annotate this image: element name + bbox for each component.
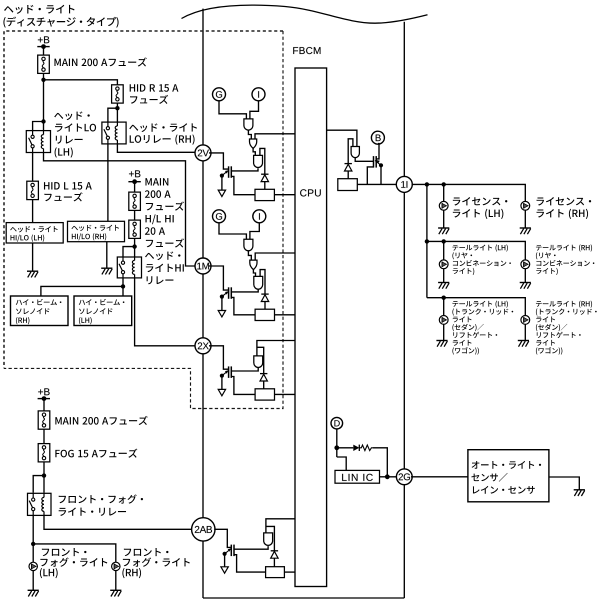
wire CPU to gate (1I) <box>327 130 357 146</box>
wire clamp branch (2V) <box>260 148 265 174</box>
wire resistor to CPU (2V) <box>274 194 295 196</box>
label license light RH <box>537 197 592 219</box>
label MAIN 200 A fuse <box>54 57 146 66</box>
wire MOSFET source to resistor (1M) <box>231 297 255 314</box>
wire B to MOSFET drain <box>376 144 379 159</box>
wire junction to RH relay switch <box>108 108 118 122</box>
wire clamp branch (2AB) <box>266 526 275 550</box>
label LIN IC <box>342 474 373 481</box>
wire MAIN fuse down to LO relay LH <box>43 73 45 130</box>
ground fog RH <box>110 590 121 596</box>
transistor MOSFET (2AB) <box>231 545 234 557</box>
wire junction to diode <box>337 447 354 449</box>
terminal G (1M cell) <box>213 210 226 223</box>
wire OR out to AND2 (2V) <box>253 148 255 155</box>
wire junction to RH fog lamp <box>33 544 116 562</box>
connector 1I <box>396 176 412 192</box>
wire 2V to MOSFET drain <box>209 153 229 169</box>
label front fog light LH <box>40 548 107 578</box>
wire HID R fuse to RH relay coil <box>116 103 118 122</box>
wire clamp branch (2X) <box>257 347 264 373</box>
node junction fog lamps <box>31 542 35 546</box>
ground tail RH row3 <box>518 341 529 347</box>
gate AND2 (2V) <box>254 155 263 167</box>
node junction row3 LH <box>442 296 446 300</box>
terminal I (2V cell) <box>252 88 265 101</box>
wire tail LH row2 to ground <box>443 269 445 283</box>
label FBCM <box>293 47 320 54</box>
label tail light RH row3 <box>536 301 597 355</box>
wire 2AB to MOSFET drain <box>214 529 231 547</box>
ground tail LH row3 <box>436 341 447 347</box>
terminal D (LIN cell) <box>331 417 343 429</box>
terminal G (2V cell) <box>213 88 226 101</box>
diode clamp (2V) <box>261 174 268 181</box>
node junction HID R output <box>115 106 119 110</box>
relay headlight LO (LH) <box>26 131 50 153</box>
label FOG 15 A fuse <box>55 449 137 458</box>
wire OR out to AND2 (1M) <box>253 270 255 277</box>
wire HID L fuse to HI/LO LH box <box>32 200 34 223</box>
wire junction to HID R fuse <box>44 80 118 85</box>
gate AND1 (1M) <box>244 239 253 251</box>
wire resistor to CPU (2AB) <box>284 571 295 573</box>
relay headlight LO (RH) <box>102 122 126 144</box>
node junction fog relay <box>42 473 46 477</box>
wire fog LH to ground <box>32 571 34 591</box>
node headlight harness curve (FBCM top edge) <box>182 5 428 23</box>
wire clamp branch (1I) <box>348 139 353 164</box>
node junction HI relay switch <box>121 284 125 288</box>
wire 1M to MOSFET drain <box>209 266 229 290</box>
connector 2V <box>195 145 211 161</box>
wire +B to MAIN fuse <box>43 47 45 56</box>
wire RH relay switch to HI/LO RH box <box>107 144 109 221</box>
node MOSFET body dot (1I) <box>375 160 383 167</box>
diode series (LIN) <box>353 445 359 451</box>
wire I to AND gate (1M) <box>250 223 259 239</box>
gate OR (1M) <box>250 260 257 270</box>
gate OR (2V) <box>250 139 257 148</box>
label headlight HI/LO RH <box>71 225 118 241</box>
gate AND1 (2V) <box>244 119 253 130</box>
wire row2 feeder <box>427 241 525 260</box>
lamp license light RH <box>521 201 530 210</box>
wire CPU to OR gate (2V) <box>255 134 295 139</box>
diode clamp (1M) <box>261 294 268 301</box>
connector 2G <box>396 469 412 485</box>
wire CPU to gate (2X) <box>257 341 295 356</box>
wire tail RH row2 to ground <box>524 269 526 283</box>
wire body down to 1I line <box>380 165 382 184</box>
module auto light / rain sensor <box>468 450 549 502</box>
wire body to arrow (1M) <box>221 297 223 311</box>
lamp license light LH <box>439 201 448 210</box>
node +B terminal (fog) <box>38 388 50 401</box>
wire gate out to MOSFET (2X) <box>231 367 258 371</box>
fuse MAIN 200 A (headlight) <box>38 55 50 73</box>
wire body to arrow (2X) <box>221 376 223 390</box>
label front fog light RH <box>122 548 189 578</box>
label headlight HI/LO LH <box>10 226 57 242</box>
wire body to arrow (2AB) <box>224 554 226 567</box>
wire LIN IC to 2G <box>380 476 398 478</box>
wire junction to fog relay switch <box>33 476 44 493</box>
lamp tail light RH (rear combination) <box>521 260 530 269</box>
wire resistor to CPU (2X) <box>275 393 296 395</box>
wire gate out to MOSFET (1I) <box>355 158 373 162</box>
node MOSFET body dot (1M) <box>220 291 229 299</box>
terminal B (1I cell) <box>371 131 384 144</box>
node dashed boundary (discharge-type headlight section) <box>4 31 283 409</box>
wire body to arrow (2V) <box>221 176 223 191</box>
wire resistor to 2G line <box>373 448 387 477</box>
fuse MAIN 200 A (fog) <box>38 411 50 429</box>
label MAIN 200 A fuse (fog) <box>55 416 147 425</box>
lamp front fog light LH <box>29 562 37 570</box>
wire FOG fuse to relay <box>43 462 45 493</box>
node output arrow (2AB) <box>221 567 228 573</box>
wire D branch to LIN IC <box>337 457 346 470</box>
resistor sense (1I) <box>338 179 358 191</box>
wire D down to junction <box>336 429 338 457</box>
ground sensor <box>574 490 585 496</box>
label high-beam solenoid LH <box>79 299 125 324</box>
wire sensor to ground <box>549 477 579 490</box>
wire MAIN to H/L HI fuse <box>134 210 136 220</box>
wire MOSFET source to resistor (2AB) <box>234 555 266 572</box>
gate AND2 (1M) <box>254 276 263 289</box>
ground headlight HI/LO LH <box>27 271 38 277</box>
wire G to AND gate (2V) <box>219 101 246 119</box>
wire diode to resistor (1I) <box>347 171 349 179</box>
wire MOSFET source to resistor (2X) <box>231 377 255 395</box>
wire 2G to sensor box <box>411 476 468 478</box>
label high-beam solenoid RH <box>16 299 62 324</box>
module CPU box <box>295 68 327 587</box>
wire MOSFET source down (1I) <box>367 167 373 185</box>
label fuse column <box>145 178 184 284</box>
wire AND2 out to MOSFET gate (2V) <box>231 168 258 171</box>
diode clamp (2AB) <box>271 551 278 558</box>
module headlight HI/LO (RH) <box>68 221 125 241</box>
wire diode to resistor (1M) <box>264 302 266 310</box>
wire HI relay coil to 2X <box>135 278 195 346</box>
wire fog RH to ground <box>115 571 117 591</box>
wire tail feeder down <box>426 184 428 297</box>
wire RH relay coil to 2V <box>117 144 194 152</box>
lamp tail light LH (trunk lid) <box>439 316 448 325</box>
label headlight LO relay LH <box>54 111 96 157</box>
terminal I (1M cell) <box>253 210 266 223</box>
ground fog LH <box>28 590 39 596</box>
label headlight LO relay RH <box>129 123 197 144</box>
node junction H/L HI output <box>132 244 136 248</box>
node junction row2 LH <box>442 239 446 243</box>
wire clamp branch (1M) <box>260 270 265 295</box>
node junction row2 left <box>425 239 429 243</box>
wire LH relay coil to 1M <box>44 153 195 267</box>
wire FBCM left trunk <box>202 9 204 598</box>
resistor series (LIN) <box>359 445 373 451</box>
wire HI/LO LH to ground <box>32 243 34 271</box>
label CPU <box>300 189 321 196</box>
wire diode to resistor (2X) <box>263 381 265 389</box>
node output arrow (2V) <box>218 190 225 196</box>
connector 2X <box>195 338 211 354</box>
wire CPU to gate (2AB) <box>266 519 295 533</box>
wire 2X to MOSFET drain <box>209 346 229 369</box>
wire gate out to MOSFET (2AB) <box>234 546 268 549</box>
wire junction to HI relay switch <box>123 247 135 257</box>
node MOSFET body dot (2X) <box>220 370 229 378</box>
wire tail RH row3 to ground <box>524 324 526 340</box>
wire G to AND gate (1M) <box>219 223 246 239</box>
gate AND (2X) <box>254 356 263 368</box>
label tail light RH row2 <box>536 244 594 275</box>
ground headlight HI/LO RH <box>101 268 112 274</box>
node +B terminal (H/L HI) <box>128 170 140 184</box>
ground tail LH row2 <box>438 283 449 289</box>
label tail light LH row2 <box>452 244 510 275</box>
node junction MAIN fuse output <box>41 78 45 82</box>
module LIN IC <box>335 470 380 483</box>
node junction 2G line <box>385 474 390 479</box>
module high-beam solenoid (RH) <box>11 296 69 326</box>
label title line1 <box>4 5 74 14</box>
wire MAIN to FOG fuse <box>43 429 45 443</box>
node output arrow (1M) <box>218 311 225 317</box>
wire FBCM right trunk <box>403 22 405 598</box>
diode clamp (2X) <box>260 374 267 381</box>
fuse H/L HI 20 A <box>129 220 141 238</box>
ground license RH <box>520 228 531 234</box>
label HID R 15 A fuse <box>130 84 179 104</box>
wire LH tail drop row2 <box>443 241 445 260</box>
wire +B to MAIN fuse (fog) <box>43 399 45 411</box>
node output arrow (2X) <box>218 389 225 395</box>
label title line2 <box>3 17 118 28</box>
wire tail LH row3 to ground <box>443 324 445 340</box>
wire CPU to OR gate (1M) <box>255 253 295 260</box>
gate AND (2AB) <box>264 533 273 546</box>
wire 1I to lamps row1 <box>412 184 526 201</box>
wire diode to resistor (2AB) <box>273 558 275 567</box>
transistor MOSFET (1M) <box>229 287 232 299</box>
wire HI relay switch down <box>122 278 124 296</box>
connector 1M <box>195 258 211 274</box>
transistor MOSFET (2X) <box>229 366 232 378</box>
wire fog relay switch down <box>32 515 34 562</box>
node junction D line <box>334 445 339 450</box>
wire resistor to CPU (1M) <box>275 314 296 316</box>
wire AND1 out to OR (1M) <box>248 251 251 260</box>
node junction row1 left <box>425 182 429 186</box>
label sensor box <box>471 461 541 494</box>
wire AND1 out to OR (2V) <box>248 130 251 139</box>
wire I to AND gate (2V) <box>250 101 259 119</box>
wire FBCM bottom edge <box>203 597 404 599</box>
diode clamp (1I) <box>345 164 352 171</box>
label front fog relay <box>59 494 143 516</box>
wire junction to LH relay switch <box>33 122 44 131</box>
fuse FOG 15 A <box>38 444 50 462</box>
lamp tail light RH (trunk lid) <box>521 316 530 325</box>
resistor sense (2AB) <box>266 567 285 578</box>
wire LH relay switch to HID L fuse <box>32 153 34 182</box>
ground tail RH row2 <box>520 283 531 289</box>
lamp front fog light RH <box>112 562 120 570</box>
wire LH license drop <box>443 184 445 201</box>
module headlight HI/LO (LH) <box>6 223 63 243</box>
fuse HID L 15 A <box>27 181 39 199</box>
wire license LH to ground <box>443 210 445 228</box>
node junction at LO relay LH <box>41 119 45 123</box>
wire diode to resistor (2V) <box>264 182 266 190</box>
transistor MOSFET (2V) <box>229 166 232 178</box>
wire LH tail drop row3 <box>443 298 445 316</box>
relay front fog light <box>28 493 52 515</box>
wire +B to MAIN fuse (C) <box>134 182 136 192</box>
fuse MAIN 200 A (H/L) <box>129 192 141 210</box>
node +B terminal (headlight main) <box>37 36 49 49</box>
resistor sense (2X) <box>255 389 274 400</box>
wire license RH to ground <box>524 210 526 228</box>
relay headlight HI <box>117 257 141 278</box>
node MOSFET body dot (2AB) <box>223 548 232 556</box>
connector 2AB <box>192 518 215 541</box>
ground license LH <box>438 228 449 234</box>
label HID L 15 A fuse <box>44 182 92 201</box>
wire AND2 out to MOSFET gate (1M) <box>231 289 258 292</box>
wire row3 feeder <box>427 298 525 316</box>
lamp tail light LH (rear combination) <box>439 260 448 269</box>
node MOSFET body dot (2V) <box>220 170 229 178</box>
fuse HID R 15 A <box>112 85 124 103</box>
wire resistor to 1I connector <box>357 183 397 185</box>
gate AND (1I) <box>351 147 359 158</box>
wire fog relay coil to 2AB <box>44 515 192 529</box>
module high-beam solenoid (LH) <box>74 296 132 326</box>
node junction row1 LH <box>442 182 446 186</box>
label license light LH <box>453 197 507 219</box>
resistor sense (2V) <box>255 189 274 200</box>
wire H/L HI fuse to HI relay <box>134 238 136 257</box>
transistor MOSFET (1I) <box>374 156 377 168</box>
label tail light LH row3 <box>452 301 513 355</box>
wire MOSFET source to resistor (2V) <box>231 176 255 194</box>
wire junction to RH solenoid <box>41 286 123 296</box>
wire HI/LO RH to ground <box>106 242 108 269</box>
resistor sense (1M) <box>255 309 274 320</box>
